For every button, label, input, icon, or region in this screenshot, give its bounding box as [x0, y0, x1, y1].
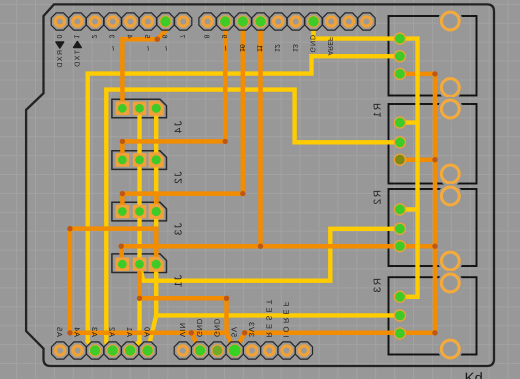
junction bottom left	[67, 330, 72, 335]
junction rail bottom	[432, 330, 437, 335]
svg-text:~: ~	[107, 45, 118, 51]
wire long bottom horizontal right part	[245, 331, 435, 336]
pad R1 pin 2	[394, 136, 406, 148]
wire 5V dip	[227, 333, 245, 351]
connector J4 box	[112, 99, 167, 118]
screw terminal hole R2 bottom	[441, 252, 459, 270]
pad RESET	[261, 342, 278, 359]
pad R4 pin 3	[394, 68, 406, 80]
svg-text:Kd: Kd	[465, 370, 483, 379]
pad J2 pin 2	[133, 153, 147, 167]
wire D6 to J column pad1	[122, 22, 165, 109]
screw terminal hole R2 top	[441, 187, 459, 205]
svg-text:A2: A2	[108, 326, 117, 337]
svg-text:R1: R1	[373, 103, 384, 119]
pad J3 pin 3	[149, 204, 164, 219]
via junction J3 pin1	[120, 191, 125, 196]
wire via to A1	[130, 298, 139, 350]
pad R2 pin 3	[394, 240, 406, 252]
screw terminal hole R4 bottom	[441, 79, 459, 97]
pad D0 RX	[51, 13, 68, 30]
svg-text:~: ~	[160, 45, 171, 51]
junction GND1 stub	[189, 330, 194, 335]
screw terminal hole R1 top	[441, 100, 459, 118]
svg-text:J2: J2	[174, 172, 185, 186]
svg-text:R3: R3	[373, 278, 384, 294]
pad GND 1	[192, 342, 209, 359]
relay R2 box	[389, 189, 477, 266]
pad SCL	[358, 13, 375, 30]
junction D9 row	[223, 139, 228, 144]
relay R4 box	[389, 16, 477, 96]
pad J3 pin 2	[133, 205, 147, 219]
pad D3	[104, 13, 121, 30]
pad D11	[252, 13, 269, 30]
wire R1 pad3 stub	[400, 157, 435, 162]
wire left riser	[70, 229, 156, 333]
pad A1	[122, 342, 139, 359]
wire A2 to R1 pad2	[106, 90, 400, 351]
screw terminal hole R3 top	[441, 274, 459, 292]
wire J1 pad2 down chain	[140, 264, 227, 333]
pad J4 pin 2	[133, 102, 147, 116]
wire J pads3 column	[154, 108, 158, 264]
svg-text:A3: A3	[90, 326, 99, 337]
svg-text:A4: A4	[73, 326, 82, 337]
connector J2 box	[112, 151, 167, 170]
pad IOREF	[278, 342, 295, 359]
svg-text:AREF: AREF	[326, 37, 333, 56]
pad J1 pin 2	[133, 257, 147, 271]
orange traces group	[70, 22, 435, 351]
junction D6 bend	[155, 37, 160, 42]
svg-text:0: 0	[55, 35, 62, 39]
pad R3 pin 1	[394, 291, 406, 303]
wire J1 pad3 to R3 pad2	[156, 264, 400, 315]
svg-text:IOREF: IOREF	[282, 299, 291, 338]
svg-text:A1: A1	[125, 326, 134, 337]
wire rail stub R1 pad1	[400, 120, 418, 124]
svg-text:3V3: 3V3	[247, 321, 256, 337]
svg-text:7: 7	[178, 35, 185, 39]
wire J1 pad2 to R2 pad2	[140, 229, 400, 281]
pad J2 pin 1	[116, 153, 130, 167]
svg-text:2: 2	[90, 35, 97, 39]
pad D8	[199, 13, 216, 30]
wire long bottom horizontal left part	[70, 331, 227, 336]
pad 5V	[226, 342, 243, 359]
pad D6	[157, 13, 174, 30]
icon RX arrow	[56, 42, 64, 48]
via junction A1	[137, 296, 142, 301]
pad GND	[305, 13, 322, 30]
wire diagonal to A0	[148, 315, 157, 350]
svg-text:J4: J4	[174, 121, 185, 135]
icon TX arrow	[74, 42, 82, 48]
pad J1 pin 3	[149, 257, 164, 272]
svg-text:~: ~	[255, 45, 266, 51]
screw terminal hole R3 bottom	[441, 340, 459, 358]
pad J4 pin 1	[116, 102, 130, 116]
junction 5V riser	[224, 296, 229, 301]
wire A3 to R4 pad2	[88, 56, 400, 350]
wire horizontal 246 row	[121, 244, 435, 249]
wire D10 drop	[122, 22, 242, 212]
pad R2 pin 1	[394, 203, 406, 215]
pad AREF	[323, 13, 340, 30]
wire D9 drop	[122, 22, 225, 160]
pad A4	[69, 342, 86, 359]
svg-text:A0: A0	[143, 326, 152, 337]
relay R3 box	[389, 277, 477, 354]
wire GND top to relay pad1 rail	[314, 22, 418, 297]
svg-text:~: ~	[237, 45, 248, 51]
pad R3 pin 3	[394, 327, 406, 339]
svg-text:6: 6	[161, 35, 168, 39]
wire J pads2 column	[137, 108, 141, 264]
wire GND1 stub diagonal	[191, 333, 200, 351]
svg-text:RESET: RESET	[264, 296, 273, 337]
pad D7	[175, 13, 192, 30]
pad D2	[86, 13, 103, 30]
connector J1 box	[112, 254, 167, 273]
pad A3	[87, 342, 104, 359]
pad A0	[139, 342, 156, 359]
pad R4 pin 2	[394, 50, 406, 62]
pad SDA	[340, 13, 357, 30]
svg-text:13: 13	[291, 44, 298, 52]
wire relay pad3 rail	[433, 74, 438, 333]
svg-text:J3: J3	[174, 223, 185, 237]
pad D5	[139, 13, 156, 30]
pad D4	[122, 13, 139, 30]
svg-text:GND: GND	[195, 318, 204, 337]
pad A5	[52, 342, 69, 359]
pad R1 pin 1	[394, 116, 406, 128]
yellow traces group	[88, 56, 400, 350]
svg-text:R2: R2	[373, 190, 384, 206]
pad R4 pin 1	[394, 32, 406, 44]
wire J3 pad3 stub	[154, 194, 159, 212]
via junction J1 pin1	[119, 244, 124, 249]
pad J2 pin 3	[149, 152, 164, 167]
svg-text:A5: A5	[55, 326, 64, 337]
svg-text:1: 1	[72, 35, 79, 39]
svg-text:8: 8	[203, 35, 210, 39]
pad D12	[270, 13, 287, 30]
pad 3V3	[243, 342, 260, 359]
pad R2 pin 2	[394, 223, 406, 235]
junction rail R4	[432, 71, 437, 76]
svg-text:J1: J1	[174, 275, 185, 289]
pad J1 pin 1	[116, 257, 130, 271]
pad R1 pin 3	[394, 154, 406, 166]
pad A2	[104, 342, 121, 359]
svg-text:4: 4	[125, 35, 132, 39]
pad GND 2	[209, 342, 226, 359]
svg-text:TXD: TXD	[74, 50, 81, 68]
via junction J2 pin1	[120, 139, 125, 144]
pad D13	[287, 13, 304, 30]
svg-text:12: 12	[273, 44, 280, 52]
svg-text:VIN: VIN	[178, 322, 187, 337]
pad D10	[234, 13, 251, 30]
junction D10 bend	[240, 191, 245, 196]
junction 5V right	[242, 330, 247, 335]
pad J3 pin 1	[116, 205, 130, 219]
screw terminal hole R4 top	[441, 12, 459, 30]
pad NC	[295, 342, 312, 359]
relay R1 box	[389, 104, 477, 184]
svg-text:GND: GND	[309, 34, 316, 53]
yellow GND rail drawn over orange stubs	[314, 22, 418, 297]
pad J4 pin 3	[149, 101, 164, 116]
screw terminal hole R1 bottom	[441, 165, 459, 183]
pad D1 TX	[69, 13, 86, 30]
wire D11 drop	[258, 22, 263, 247]
junction D11 row	[258, 244, 263, 249]
svg-text:5V: 5V	[230, 326, 239, 337]
via junction left riser	[67, 226, 72, 231]
svg-text:~: ~	[142, 45, 153, 51]
svg-text:3: 3	[108, 35, 115, 39]
junction rail R2	[432, 244, 437, 249]
wire rail stub R2 pad1	[400, 207, 418, 211]
pad D9	[217, 13, 234, 30]
svg-text:5: 5	[143, 35, 150, 39]
svg-text:GND: GND	[212, 318, 221, 337]
pad R3 pin 2	[394, 309, 406, 321]
wire to J1 pad1	[121, 246, 122, 264]
connector J3 box	[112, 202, 167, 221]
wire R4 pad3 stub	[400, 72, 435, 77]
pad VIN	[174, 342, 191, 359]
svg-text:RXD: RXD	[57, 50, 64, 69]
svg-text:9: 9	[220, 35, 227, 39]
svg-text:~: ~	[220, 45, 231, 51]
junction rail R1	[432, 157, 437, 162]
